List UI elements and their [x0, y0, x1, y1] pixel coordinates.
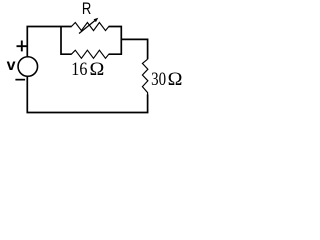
wire: left node vertical (16-ohm branch to top wire) — [61, 27, 72, 55]
resistor 16-ohm zigzag — [71, 50, 108, 58]
label minus sign — [15, 79, 25, 81]
svg-text:R: R — [82, 1, 91, 19]
svg-text:v: v — [7, 57, 16, 74]
svg-text:16: 16 — [71, 58, 87, 79]
svg-text:Ω: Ω — [90, 59, 105, 79]
wire: stub from right node + right wire upper — [121, 39, 147, 59]
wire: left wire above source + top wire — [27, 27, 71, 57]
svg-text:Ω: Ω — [168, 69, 183, 89]
svg-text:30: 30 — [151, 68, 166, 89]
arrow through resistor R (variable) — [79, 21, 95, 34]
resistor 30-ohm zigzag — [142, 59, 148, 94]
resistor R zigzag — [71, 23, 108, 31]
voltage source V circle — [18, 57, 38, 77]
wire: right wire lower + bottom wire + left wire below source — [27, 76, 147, 112]
label plus sign — [17, 41, 28, 52]
wire: right node vertical (R branch to 16-ohm branch) — [109, 27, 122, 55]
